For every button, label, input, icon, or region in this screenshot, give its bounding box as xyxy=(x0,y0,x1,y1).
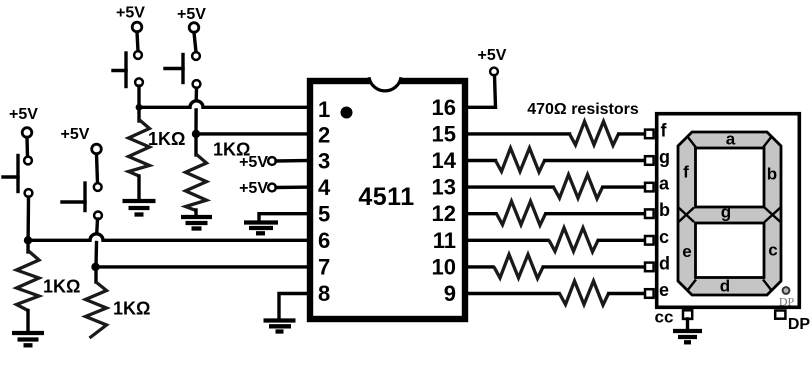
svg-text:16: 16 xyxy=(432,95,456,120)
wire node D to pin 2 xyxy=(196,132,310,135)
pushbutton S3 actuator bar xyxy=(124,53,127,87)
svg-text:DP: DP xyxy=(788,316,811,333)
svg-text:+5V: +5V xyxy=(61,126,90,143)
svg-text:d: d xyxy=(659,253,670,273)
node D junction dot xyxy=(192,130,200,138)
wire pin 9 to R11 xyxy=(465,292,559,295)
wire pin 12 to R8 xyxy=(465,212,496,215)
terminal square b xyxy=(645,209,654,218)
wire node B to pin 7 xyxy=(96,265,311,268)
joint diagonal bottom-left xyxy=(687,280,696,292)
svg-text:+5V: +5V xyxy=(239,180,268,197)
wire S4 down through hop to node D xyxy=(194,88,198,101)
wire from +5V to switch S2 xyxy=(97,154,98,183)
op-amp U1 4511 body xyxy=(310,81,465,319)
pushbutton S4 actuator stem xyxy=(165,67,183,70)
svg-text:a: a xyxy=(726,130,736,149)
svg-text:1KΩ: 1KΩ xyxy=(43,277,80,297)
terminal square a xyxy=(645,183,654,192)
wire +5V to pin 3 xyxy=(276,159,310,163)
digit lower window xyxy=(696,223,765,278)
SECTION: right resistors xyxy=(465,47,654,305)
svg-text:DP: DP xyxy=(779,295,795,309)
power +5V terminal circle (column 1) xyxy=(22,128,32,138)
wire R8 to terminal b xyxy=(546,212,645,215)
svg-text:1: 1 xyxy=(318,97,330,122)
power +5V terminal circle (column 4) xyxy=(189,23,199,33)
pushbutton S2 top contact xyxy=(94,183,102,191)
decimal point dot xyxy=(783,287,790,294)
svg-text:d: d xyxy=(720,277,730,296)
svg-text:a: a xyxy=(659,174,670,194)
power +5V terminal circle (pin 4) xyxy=(268,184,276,192)
pushbutton S1 top contact xyxy=(24,157,32,165)
wire R11 to terminal e xyxy=(609,292,645,295)
wire R7 to terminal a xyxy=(603,185,645,188)
resistor R5 470 (segment f) xyxy=(570,121,620,145)
ground (cc) xyxy=(673,331,702,342)
ground (pin 8) xyxy=(264,321,296,332)
svg-text:b: b xyxy=(659,200,670,220)
pushbutton S4 top contact xyxy=(192,52,200,60)
svg-text:+5V: +5V xyxy=(116,5,145,22)
resistor R1 1K (column 1) xyxy=(17,251,40,311)
SECTION: left input buttons and pulldowns xyxy=(3,5,310,346)
wire pin 5 to ground xyxy=(259,214,310,221)
terminal square cc xyxy=(683,310,692,319)
terminal square f xyxy=(645,130,654,139)
svg-text:7: 7 xyxy=(318,255,330,280)
power +5V terminal circle (pin 16) xyxy=(490,68,498,76)
SECTION: display xyxy=(655,114,811,343)
digit upper window xyxy=(696,148,765,207)
svg-text:+5V: +5V xyxy=(239,154,268,171)
svg-text:f: f xyxy=(683,163,689,182)
wire node A to pin 6 (hops over column 2 wire) xyxy=(28,234,310,240)
resistor R4 1K (column 4) xyxy=(186,154,207,211)
resistor R3 1K (column 3) xyxy=(129,120,150,177)
svg-text:8: 8 xyxy=(318,281,330,306)
ground (column 1) xyxy=(12,333,44,345)
wire pin 11 to R9 xyxy=(465,239,548,242)
svg-text:g: g xyxy=(659,147,670,167)
wire S2 down through hop to node B xyxy=(95,219,99,233)
wire S1 to node A xyxy=(26,197,30,252)
pushbutton S2 actuator stem xyxy=(62,200,85,203)
svg-text:c: c xyxy=(659,227,669,247)
svg-text:13: 13 xyxy=(432,175,456,200)
ground (pin 5) xyxy=(244,223,278,234)
terminal square g xyxy=(645,156,654,165)
svg-text:5: 5 xyxy=(318,202,330,227)
resistor R11 470 (segment e) xyxy=(560,281,610,305)
terminal square d xyxy=(645,263,654,272)
SECTION: IC xyxy=(310,77,465,319)
power +5V terminal circle (column 2) xyxy=(92,144,102,154)
pushbutton S1 actuator bar xyxy=(16,156,19,192)
resistor R6 470 (segment g) xyxy=(496,148,546,172)
joint diagonal top-right xyxy=(763,136,772,148)
wire node D to R4 xyxy=(194,134,197,155)
wire +5V to pin 4 xyxy=(276,185,310,189)
joint diagonal top-left xyxy=(687,136,696,148)
pushbutton S4 bottom contact xyxy=(193,80,201,88)
svg-text:10: 10 xyxy=(432,254,456,279)
node B junction dot xyxy=(91,263,99,271)
svg-text:1KΩ: 1KΩ xyxy=(148,129,185,149)
wire pin 13 to R7 xyxy=(465,185,553,188)
svg-text:e: e xyxy=(682,242,691,261)
wire R1 to ground xyxy=(26,311,29,333)
pushbutton S1 bottom contact xyxy=(25,189,33,197)
svg-text:3: 3 xyxy=(318,149,330,174)
pushbutton S3 bottom contact xyxy=(135,78,143,86)
svg-text:1KΩ: 1KΩ xyxy=(113,299,150,319)
svg-text:+5V: +5V xyxy=(478,47,507,64)
wire R5 to terminal f xyxy=(619,132,645,135)
node C junction dot xyxy=(136,104,143,111)
power +5V terminal circle (column 3) xyxy=(132,22,142,32)
svg-text:4511: 4511 xyxy=(358,183,414,211)
svg-text:11: 11 xyxy=(433,228,456,253)
svg-text:+5V: +5V xyxy=(9,106,38,123)
digit segment body (grey figure 8) xyxy=(678,132,781,295)
wire from +5V to switch S3 xyxy=(137,32,138,51)
ground (column 4) xyxy=(181,217,212,229)
svg-text:6: 6 xyxy=(318,228,330,253)
wire R4 to ground xyxy=(194,210,197,216)
wire node C to R3 xyxy=(137,107,140,121)
wire pin 14 to R6 xyxy=(465,159,496,162)
joint X middle-right xyxy=(765,208,781,223)
svg-text:2: 2 xyxy=(318,123,330,148)
pushbutton S4 actuator bar xyxy=(181,55,184,83)
svg-text:15: 15 xyxy=(432,121,456,146)
svg-text:c: c xyxy=(768,241,777,260)
wire R10 to terminal d xyxy=(544,265,646,268)
svg-text:4: 4 xyxy=(318,175,331,200)
wire from +5V to switch S4 xyxy=(194,33,196,53)
U1 orientation notch xyxy=(369,77,401,91)
wire R3 to ground xyxy=(137,176,140,200)
wire node C to pin 1 (hops over column 4 wire) xyxy=(139,101,310,107)
U1 pin 1 index dot xyxy=(341,107,353,119)
pushbutton S2 bottom contact xyxy=(94,212,102,220)
pushbutton S3 actuator stem xyxy=(113,69,126,72)
terminal square c xyxy=(645,236,654,245)
svg-text:470Ω resistors: 470Ω resistors xyxy=(527,101,639,118)
node A junction dot xyxy=(24,236,32,244)
pushbutton S1 actuator stem xyxy=(3,175,18,178)
svg-text:+5V: +5V xyxy=(177,6,206,23)
svg-text:b: b xyxy=(767,165,777,184)
pushbutton S3 top contact xyxy=(134,51,142,59)
svg-text:f: f xyxy=(661,120,668,140)
wire R6 to terminal g xyxy=(545,159,645,162)
svg-text:g: g xyxy=(721,203,731,222)
joint X middle-left xyxy=(679,208,695,223)
ground (column 3) xyxy=(123,201,156,215)
svg-text:9: 9 xyxy=(444,281,456,306)
7-segment display DS1 package outline xyxy=(657,114,800,308)
wire from +5V to switch S1 xyxy=(25,138,29,157)
wire +5V to pin 16 xyxy=(465,76,496,108)
svg-text:e: e xyxy=(659,280,669,300)
terminal square DP xyxy=(775,311,785,319)
wire pin 10 to R10 xyxy=(465,265,493,268)
wire cc to ground xyxy=(686,319,689,330)
svg-text:cc: cc xyxy=(655,308,674,327)
resistor R8 470 (segment b) xyxy=(497,201,547,225)
wire R9 to terminal c xyxy=(599,239,646,242)
resistor R7 470 (segment a) xyxy=(554,175,604,199)
wire node B to R2 xyxy=(94,267,97,282)
pushbutton S2 actuator bar xyxy=(83,183,86,211)
resistor R10 470 (segment d) xyxy=(494,254,544,278)
resistor R9 470 (segment c) xyxy=(549,228,599,252)
terminal square e xyxy=(645,289,654,298)
wire pin 8 to ground xyxy=(279,294,310,320)
wire S3 to node C xyxy=(137,86,140,107)
svg-text:14: 14 xyxy=(432,148,457,173)
resistor R2 1K (column 2) xyxy=(86,282,107,338)
wire pin 15 to R5 xyxy=(465,132,570,135)
svg-text:12: 12 xyxy=(432,201,456,226)
power +5V terminal circle (pin 3) xyxy=(268,157,276,165)
joint diagonal bottom-right xyxy=(763,280,772,292)
